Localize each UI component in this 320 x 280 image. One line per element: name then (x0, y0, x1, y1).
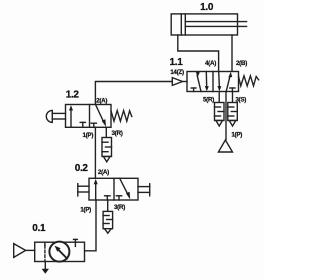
valve 1.2 body (3/2-way pushbutton) (66, 105, 112, 128)
valve 1.2 pushbutton actuator (46, 110, 65, 122)
svg-text:2(A): 2(A) (98, 169, 109, 176)
valve 1.1 body (5/2-way) (187, 72, 239, 92)
valve 1.2 right box blocked port 1 (91, 123, 96, 127)
service unit 0.1 regulator circle with arrow (49, 242, 69, 262)
wire valve 1.1 port 1(P) to supply (225, 92, 227, 140)
svg-text:1.2: 1.2 (66, 89, 80, 100)
service unit 0.1 (35, 242, 85, 261)
svg-text:1.1: 1.1 (169, 57, 183, 68)
svg-text:5(R): 5(R) (203, 97, 214, 104)
compressed air supply for valve 1.1 port 1(P) (218, 140, 232, 152)
valve 0.2 left box passage 1->2 (94, 179, 98, 200)
svg-text:2(B): 2(B) (236, 60, 247, 67)
valve 1.2 return spring (111, 111, 132, 122)
valve 1.2 left box passage 1->2 (69, 105, 73, 127)
valve 0.2 body (3/2-way, normally open) (89, 178, 138, 200)
valve 1.1 left box blocked port 5 (191, 88, 196, 92)
silencer on port 3(S) (228, 103, 238, 127)
valve 1.2 right box passage 2->3 (96, 105, 107, 127)
svg-text:14(Z): 14(Z) (170, 69, 184, 76)
wire cylinder left port to valve 1.1 port 4(A) (178, 35, 219, 72)
valve 0.2 right plunger actuator (138, 184, 150, 196)
service unit 0.1 condensate drain arrow (42, 262, 49, 274)
valve 0.2 right box blocked port 1 (116, 196, 121, 200)
wire valve 1.1 port 3(S) to silencer (232, 92, 234, 103)
valve 0.2 left box blocked port 3 (105, 196, 111, 200)
cylinder 1.0 (171, 14, 246, 35)
svg-text:2(A): 2(A) (96, 97, 107, 104)
silencer on port 5(R) (215, 103, 225, 127)
svg-text:1(P): 1(P) (80, 207, 91, 214)
wire valve 1.2 port 3(R) to silencer (105, 127, 107, 137)
silencer on valve 1.2 port 3(R) (102, 138, 112, 162)
valve 1.1 right box passage 1->2 (226, 72, 232, 92)
svg-text:1.0: 1.0 (200, 2, 214, 13)
service unit 0.1 adjustment tick (74, 239, 78, 246)
wire valve 0.2 port 3(R) to silencer (107, 200, 109, 211)
svg-text:0.2: 0.2 (75, 163, 89, 174)
svg-text:4(A): 4(A) (205, 60, 216, 67)
valve 1.1 left box passage 1->4 (196, 72, 201, 92)
compressed air source triangle at inlet (14, 244, 35, 258)
wire valve 1.2 port 1(P) to valve 0.2 port 2(A) (94, 127, 96, 178)
wire cylinder right port to valve 1.1 port 2(B) (231, 35, 233, 72)
valve 0.2 left plunger actuator (78, 184, 89, 196)
wire valve 1.1 port 5(R) to silencer (218, 92, 220, 103)
valve 1.1 right box blocked port 3 (230, 88, 235, 92)
valve 1.1 pilot 14(Z) triangle (172, 78, 187, 86)
svg-text:3(R): 3(R) (114, 204, 125, 211)
valve 1.1 right box passage 4->5 (217, 72, 221, 92)
valve 1.2 left box blocked port 3 (80, 122, 85, 127)
svg-text:1(P): 1(P) (231, 132, 242, 139)
pilot wire from valve 1.2 port 2(A) to valve 1.1 port 14(Z) (95, 82, 172, 105)
svg-text:0.1: 0.1 (32, 223, 46, 234)
valve 1.1 return spring (239, 76, 259, 86)
silencer on valve 0.2 port 3(R) (103, 211, 113, 233)
valve 0.2 right box passage 2->3 (120, 178, 131, 199)
wire valve 0.2 port 1(P) to service unit 0.1 (85, 200, 97, 251)
valve 1.1 left box passage 2->3 (205, 72, 209, 92)
svg-text:1(P): 1(P) (82, 132, 93, 139)
svg-text:3(R): 3(R) (111, 130, 122, 137)
